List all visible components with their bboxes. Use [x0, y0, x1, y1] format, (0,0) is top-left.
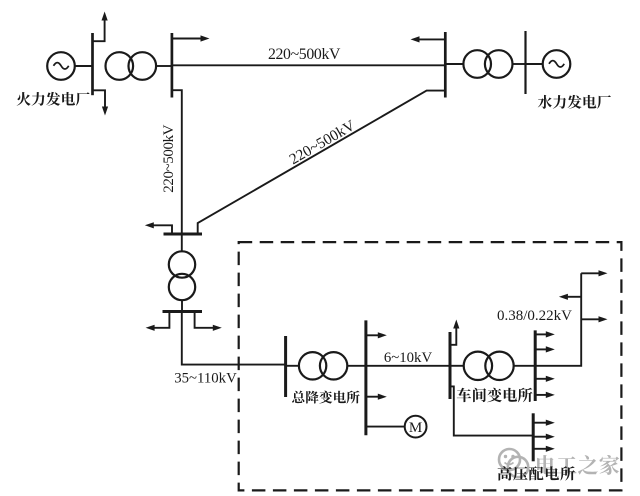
feeder arrow right from bus10 y=436.7: [533, 436, 547, 438]
busbar bus8 (workshop substation input): [449, 332, 452, 399]
feeder arrow right from riser: [581, 318, 599, 320]
busbar bus4: [164, 233, 203, 236]
watermark text 电工之家: [537, 455, 619, 475]
wire T2 to generator bar: [513, 63, 526, 65]
label 高压配电所 (HV distribution station): [498, 466, 575, 480]
feeder arrow right from bus10 y=448.8: [533, 448, 547, 450]
svg-text:220~500kV: 220~500kV: [286, 117, 358, 168]
busbar bus3 (220~500kV right): [444, 32, 447, 98]
label 水力发电厂 (hydro power plant): [538, 95, 611, 109]
feeder arrow right from bus5: [195, 312, 214, 328]
watermark logo circles: [499, 449, 520, 470]
wire: 220~500kV diagonal line: [198, 91, 446, 234]
transformer T4 (main step-down substation): [286, 365, 299, 367]
wire: 220~500kV transmission line (top): [172, 64, 445, 66]
busbar bus5 (35~110kV): [163, 310, 203, 313]
wire T4 to bus7: [347, 365, 366, 367]
wire: feeder to low-voltage distribution bus: [450, 386, 533, 435]
label 车间变电所 (workshop substation): [457, 388, 533, 403]
svg-text:0.38/0.22kV: 0.38/0.22kV: [497, 308, 572, 324]
wire T1 to bus2: [156, 65, 172, 67]
feeder arrow left from bus5: [152, 312, 169, 328]
feeder arrow left from riser: [566, 296, 581, 298]
svg-text:35~110kV: 35~110kV: [174, 371, 237, 387]
transformer T2 (step-up, hydro plant): [445, 63, 463, 65]
svg-text:220~500kV: 220~500kV: [161, 124, 177, 192]
busbar bus2 (220~500kV): [171, 33, 174, 98]
feeder arrow right from bus9 y=349.4: [535, 348, 547, 350]
feeder arrow right from bus2: [172, 38, 201, 40]
busbar bus1: [91, 33, 94, 95]
transformer T5 (workshop substation): [450, 365, 464, 367]
feeder arrow right at riser top: [581, 272, 599, 274]
wire: 220~500kV line down from bus2: [172, 90, 182, 234]
feeder arrow up from bus1: [93, 20, 105, 41]
label 总降变电所 (main step-down substation): [292, 391, 360, 404]
dashed factory boundary box: [239, 242, 622, 490]
feeder arrow right from bus7 (top): [366, 334, 379, 336]
busbar bus7 (6~10kV): [364, 320, 367, 435]
svg-text:220~500kV: 220~500kV: [268, 46, 341, 63]
svg-text:M: M: [409, 420, 422, 436]
transformer T3 (regional step-down): [169, 251, 195, 277]
motor M: [405, 416, 427, 438]
wire T5 to bus9: [514, 365, 536, 367]
generator G2 (hydro plant): [526, 63, 543, 65]
busbar bus6 (main substation input): [284, 336, 287, 397]
generator G1 (thermal plant): [47, 52, 75, 80]
svg-text:6~10kV: 6~10kV: [384, 350, 433, 366]
feeder arrow right from bus7 (middle): [366, 396, 379, 398]
wire bus7 to motor: [366, 426, 405, 428]
feeder arrow left from bus3: [419, 38, 445, 40]
feeder arrow left at bus4: [151, 225, 172, 234]
busbar bus9 (0.38/0.22kV): [534, 330, 537, 401]
wire: low-voltage riser: [535, 273, 581, 366]
feeder arrow right from bus9 y=334.4: [535, 333, 547, 335]
feeder arrow down from bus1: [93, 90, 106, 107]
feeder arrow right from bus10 y=422.7: [533, 422, 547, 424]
wire: 6~10kV line to workshop substation: [366, 365, 450, 367]
wire bus4 to T3: [181, 234, 183, 252]
label 火力发电厂 (thermal power plant): [17, 92, 90, 106]
generator bar (hydro): [524, 31, 526, 94]
wire: 35~110kV line to main substation: [182, 312, 286, 365]
wire T3 to bus5: [181, 300, 183, 311]
feeder arrow right from bus9 y=394.9: [535, 394, 547, 396]
feeder arrow up from bus8: [450, 328, 456, 345]
busbar bus10 (low-voltage distribution): [532, 413, 535, 461]
wire G1 to bus1: [75, 65, 93, 67]
transformer T1 (step-up, thermal plant): [106, 52, 134, 80]
feeder arrow right from bus9 y=378.8: [535, 378, 547, 380]
